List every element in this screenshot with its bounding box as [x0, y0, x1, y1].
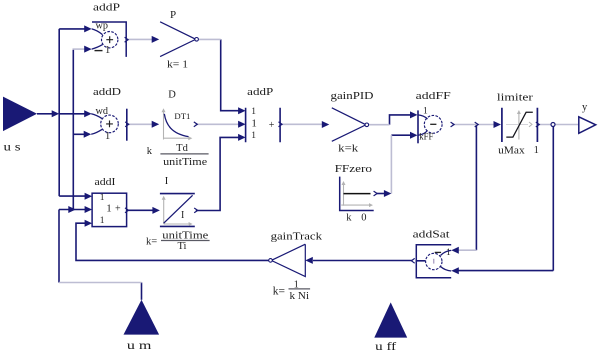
svg-text:1: 1 — [106, 203, 112, 215]
svg-text:1: 1 — [251, 118, 257, 130]
svg-text:gainPID: gainPID — [331, 91, 375, 102]
svg-text:0: 0 — [361, 213, 366, 224]
svg-text:kFF: kFF — [419, 132, 433, 142]
svg-text:1: 1 — [105, 131, 110, 142]
svg-text:k: k — [346, 213, 352, 224]
svg-text:1: 1 — [105, 45, 110, 56]
svg-text:limiter: limiter — [497, 93, 534, 104]
svg-text:wd: wd — [96, 106, 109, 117]
svg-text:D: D — [168, 90, 176, 101]
svg-text:I: I — [181, 210, 184, 221]
svg-text:1: 1 — [251, 107, 256, 117]
svg-text:I: I — [165, 176, 169, 187]
svg-text:unitTime: unitTime — [163, 157, 207, 168]
svg-text:addI: addI — [95, 177, 117, 188]
svg-text:Ti: Ti — [178, 241, 187, 252]
svg-text:1: 1 — [251, 131, 256, 141]
svg-text:k=: k= — [146, 237, 157, 248]
svg-text:DT1: DT1 — [174, 111, 190, 121]
svg-text:1: 1 — [446, 248, 451, 258]
svg-text:1: 1 — [100, 216, 105, 226]
svg-text:+: + — [115, 204, 121, 215]
svg-text:addD: addD — [93, 87, 122, 98]
svg-text:k= 1: k= 1 — [167, 59, 188, 70]
svg-text:gainTrack: gainTrack — [271, 231, 323, 242]
svg-text:addSat: addSat — [413, 230, 450, 241]
svg-text:addFF: addFF — [416, 91, 451, 102]
svg-text:y: y — [582, 102, 588, 113]
svg-text:addP: addP — [247, 87, 273, 98]
svg-text:uMax: uMax — [498, 146, 525, 157]
svg-text:addP: addP — [93, 3, 120, 14]
svg-text:P: P — [170, 9, 176, 21]
svg-text:1: 1 — [423, 107, 428, 117]
svg-text:1: 1 — [534, 145, 539, 156]
svg-text:u m: u m — [127, 338, 152, 352]
svg-text:k Ni: k Ni — [290, 291, 310, 302]
svg-text:k=k: k=k — [338, 143, 359, 154]
svg-text:wp: wp — [96, 20, 109, 31]
svg-text:u s: u s — [4, 139, 21, 153]
svg-text:Td: Td — [176, 143, 188, 154]
svg-text:k: k — [147, 146, 153, 157]
svg-text:1: 1 — [294, 280, 299, 291]
svg-text:+: + — [269, 120, 275, 131]
svg-text:FFzero: FFzero — [335, 164, 372, 175]
svg-text:u ff: u ff — [375, 339, 396, 353]
svg-text:k=: k= — [273, 286, 285, 298]
svg-text:1: 1 — [100, 193, 105, 203]
